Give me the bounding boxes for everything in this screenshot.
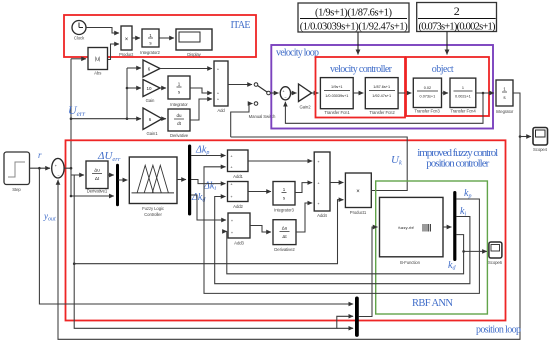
wire r to Mux4 — [39, 168, 353, 304]
ITAE red box — [64, 15, 256, 57]
integrator Integrator3 — [273, 182, 295, 213]
svg-text:Add3: Add3 — [234, 241, 244, 246]
junction on Uerr line — [70, 117, 73, 120]
svg-text:(1/0.03039s+1)(1/92.47s+1): (1/0.03039s+1)(1/92.47s+1) — [300, 22, 409, 33]
svg-text:object: object — [432, 64, 454, 75]
svg-text:Δt: Δt — [95, 176, 100, 181]
svg-text:Product: Product — [119, 52, 134, 57]
junction kd scope tap — [462, 250, 465, 253]
wire Uerr to Product1 second input — [74, 200, 343, 264]
clock Clock — [72, 21, 86, 41]
svg-text:position loop: position loop — [476, 325, 521, 336]
sum Sum — [52, 158, 64, 178]
svg-text:0.073s+1: 0.073s+1 — [420, 95, 436, 99]
wire Mux2 to Add1 — [191, 155, 226, 157]
wire Product to Integrator2 — [132, 37, 140, 39]
abs Abs — [88, 48, 108, 76]
svg-text:Δt: Δt — [282, 234, 287, 239]
integrator Integrator1 — [496, 80, 514, 114]
wire Mux1 to FLC — [118, 179, 127, 181]
gain Gain1 — [143, 108, 162, 136]
svg-text:1/9s+1: 1/9s+1 — [331, 85, 343, 89]
wire Gain to Integrator — [160, 87, 166, 89]
sum Add4 — [314, 152, 330, 218]
derivative Derivative — [168, 109, 190, 138]
svg-text:Scope6: Scope6 — [488, 260, 503, 265]
rbf block B-Function — [380, 197, 444, 265]
svg-text:Derivative1: Derivative1 — [87, 188, 108, 193]
arrow formula1 to velocity controller — [357, 32, 359, 55]
transferfcn Transfer Fcn3 — [413, 78, 441, 113]
wire Add1 to Add4 — [248, 160, 312, 162]
svg-text:Clock: Clock — [74, 36, 85, 41]
wire kp return — [204, 167, 479, 294]
mux Mux4 — [355, 297, 359, 337]
wire Add4 to Product1 — [330, 182, 343, 184]
svg-text:Step: Step — [12, 187, 21, 192]
formula box 1 — [298, 3, 409, 33]
wire to Gain1 — [127, 118, 141, 120]
product Product1 — [345, 173, 371, 215]
junction r tap — [38, 167, 41, 170]
svg-text:Abs: Abs — [94, 71, 101, 76]
wire gains feed — [71, 68, 127, 119]
wire Product1 out Uk up — [231, 137, 408, 191]
product Product — [119, 26, 134, 57]
svg-text:fuzzy-rbf: fuzzy-rbf — [398, 225, 414, 230]
svg-text:1/0.03039s+1: 1/0.03039s+1 — [325, 94, 348, 98]
wire Integrator to Add — [190, 88, 212, 93]
mux Mux2 — [188, 145, 191, 216]
sum Add — [214, 61, 228, 113]
node Uerr vertical — [70, 59, 72, 196]
transferfcn Transfer Fcn4 — [450, 78, 476, 113]
svg-text:Derivative: Derivative — [170, 133, 189, 138]
wire Gain2 to TransferFcn1 — [312, 92, 319, 94]
wire second to Mux4 — [74, 175, 353, 328]
sum Add2 — [228, 182, 249, 210]
formula box 2 — [417, 3, 497, 33]
wire to Gain mid — [127, 87, 141, 89]
svg-text:B-Function: B-Function — [400, 260, 420, 265]
svg-text:Transfer Fcn1: Transfer Fcn1 — [324, 110, 350, 115]
svg-text:0.002s+1: 0.002s+1 — [455, 95, 471, 99]
svg-text:Integrator2: Integrator2 — [140, 50, 160, 55]
wire Integrator3 to Add4 — [295, 183, 312, 193]
junction mux input tap — [70, 195, 73, 198]
svg-text:0.02: 0.02 — [424, 86, 431, 90]
wire third to Mux4 — [337, 327, 353, 329]
svg-text:ITAE: ITAE — [231, 20, 251, 31]
junction velocity feedback tap — [482, 92, 485, 95]
wire velocity feedback — [285, 93, 483, 123]
wire FLC to Mux2 — [177, 179, 186, 181]
wire switch to Sum1 — [270, 92, 278, 94]
display Display — [176, 29, 212, 57]
scope Scope4 — [533, 128, 548, 153]
improved fuzzy red box — [66, 140, 506, 320]
wire Derivative to Add — [190, 99, 212, 120]
svg-text:1/87.6s+1: 1/87.6s+1 — [373, 85, 390, 89]
derivative Derivative1 — [86, 161, 108, 193]
wire Uk into switch lower contact — [231, 104, 253, 138]
svg-text:Transfer Fcn4: Transfer Fcn4 — [450, 109, 476, 114]
integrator Integrator2 — [140, 29, 160, 55]
mux Mux1 — [116, 164, 119, 206]
svg-text:Display: Display — [187, 52, 201, 57]
junction product input tap — [73, 262, 76, 265]
wire Uerr to Mux1 second input — [71, 195, 114, 197]
svg-text:Integrator: Integrator — [170, 102, 188, 107]
wire TF2 to TF3 — [398, 92, 411, 94]
junction scope tap — [519, 135, 522, 138]
gain Gain — [143, 80, 160, 104]
sum Sum1 — [280, 87, 290, 100]
sum Add1 — [228, 150, 249, 179]
svg-text:Gain1: Gain1 — [147, 131, 159, 136]
svg-text:du: du — [176, 113, 182, 118]
arrow formula2 to object — [446, 32, 448, 55]
wire Integrator2 to Display — [159, 37, 174, 39]
svg-text:Gain2: Gain2 — [300, 105, 312, 110]
svg-text:r: r — [38, 150, 42, 160]
svg-text:(0.073s+1)(0.002s+1): (0.073s+1)(0.002s+1) — [419, 22, 497, 33]
fuzzy logic controller FLC — [129, 157, 177, 217]
switch Manual Switch — [249, 83, 276, 119]
wire Sum out to branches — [64, 168, 84, 175]
svg-text:Integrator3: Integrator3 — [274, 208, 294, 213]
svg-text:Transfer Fcn3: Transfer Fcn3 — [414, 109, 440, 114]
wire TF3 to TF4 — [442, 92, 449, 94]
velocity controller red box — [316, 57, 406, 118]
mux Mux3 — [453, 191, 456, 261]
svg-text:2: 2 — [454, 4, 460, 18]
junction gain feed bottom — [126, 117, 129, 120]
svg-text:velocity loop: velocity loop — [276, 48, 319, 59]
wire Add3 to Derivative2 — [250, 226, 271, 233]
svg-text:Transfer Fcn2: Transfer Fcn2 — [369, 110, 395, 115]
svg-text:Add2: Add2 — [233, 204, 243, 209]
wire Derivative2 to Add4 — [296, 203, 312, 232]
svg-text:|u|: |u| — [95, 57, 100, 63]
svg-text:Scope4: Scope4 — [533, 147, 548, 152]
wire input to BFunction — [359, 227, 378, 317]
junction Uerr tap — [70, 167, 73, 170]
wire Mux2 to Add3 — [191, 195, 226, 220]
wire Gain to Add — [160, 68, 212, 70]
gain Gain2 top — [143, 60, 160, 77]
wire Gain1 to Derivative — [162, 118, 166, 120]
svg-text:Δu: Δu — [94, 168, 100, 173]
wire ki return — [215, 197, 470, 284]
svg-text:RBF ANN: RBF ANN — [412, 298, 453, 309]
wire Abs to Product — [108, 44, 120, 60]
gain Gain2 — [299, 84, 312, 110]
wire Add to switch — [228, 84, 252, 86]
wire TF1 to TF2 — [353, 92, 363, 94]
transferfcn Transfer Fcn2 — [365, 78, 398, 115]
transferfcn Transfer Fcn1 — [320, 78, 353, 115]
sum Add3 — [228, 213, 250, 246]
wire into Abs — [71, 58, 86, 60]
wire Integrator1 out and yout feedback — [58, 93, 520, 339]
object red box — [406, 57, 489, 116]
green RBF ANN box — [376, 181, 488, 314]
wire to Gain — [127, 67, 141, 69]
wire Step to Sum — [30, 167, 51, 169]
derivative Derivative2 — [273, 220, 296, 252]
svg-text:1: 1 — [462, 86, 464, 90]
svg-text:Add: Add — [217, 108, 225, 113]
integrator Integrator — [168, 76, 190, 107]
svg-text:Δu: Δu — [282, 226, 288, 231]
wire Sum1 to Gain2 — [291, 92, 297, 94]
svg-text:Add1: Add1 — [233, 174, 243, 179]
wire TF4 to Integrator1 — [476, 92, 494, 94]
svg-text:Fuzzy Logic: Fuzzy Logic — [142, 206, 165, 211]
svg-text:velocity controller: velocity controller — [330, 64, 393, 75]
wire to Scope6 — [464, 250, 487, 252]
wire BFunction to Mux3 — [443, 226, 451, 228]
step Step — [4, 152, 30, 192]
svg-text:(1/9s+1)(1/87.6s+1): (1/9s+1)(1/87.6s+1) — [315, 7, 393, 18]
svg-text:position controller: position controller — [426, 158, 489, 170]
svg-text:Add4: Add4 — [317, 213, 327, 218]
wire kd return — [227, 231, 464, 273]
wire Derivative1 to Mux1 — [108, 174, 114, 176]
svg-text:Controller: Controller — [144, 212, 162, 217]
wire to Scope4 — [520, 136, 531, 138]
svg-text:Gain: Gain — [146, 98, 155, 103]
velocity loop purple box — [271, 45, 493, 129]
wire Clock to Product — [86, 28, 119, 34]
svg-text:Integrator: Integrator — [496, 109, 514, 114]
svg-text:10: 10 — [146, 86, 152, 91]
svg-text:×: × — [356, 189, 360, 195]
wire Mux2 to Add2 — [191, 180, 226, 184]
wire Add2 to Integrator3 — [248, 191, 271, 193]
svg-text:×: × — [125, 37, 129, 43]
svg-text:1/92.47s+1: 1/92.47s+1 — [372, 94, 391, 98]
junction gain feed mid — [126, 87, 129, 90]
scope Scope6 — [488, 242, 503, 265]
svg-text:Product1: Product1 — [350, 210, 367, 215]
svg-text:Derivative2: Derivative2 — [274, 247, 295, 252]
